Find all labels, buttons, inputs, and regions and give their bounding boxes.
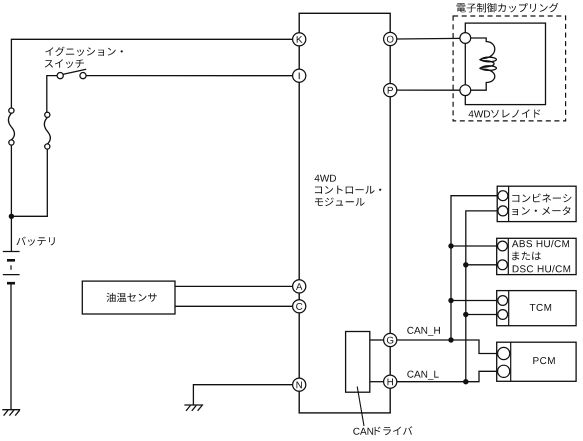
CAN driver box bbox=[346, 332, 370, 393]
label ignition switch bbox=[45, 47, 123, 69]
label electronic control coupling bbox=[457, 3, 559, 13]
wire bus2 to ABS bbox=[466, 264, 498, 266]
pin O bbox=[384, 32, 397, 45]
4WD control module box U1 bbox=[299, 13, 390, 413]
wire battery-fuse to pin K bbox=[11, 39, 293, 108]
combination meter box bbox=[497, 186, 576, 221]
wire switch to fuse F2 bbox=[47, 76, 57, 113]
label battery bbox=[17, 237, 55, 246]
PCM box bbox=[497, 342, 576, 381]
inductor coil L1 bbox=[471, 38, 497, 90]
wire sensor to pin A bbox=[175, 285, 293, 287]
wire pin P to solenoid bbox=[397, 89, 460, 91]
pin N bbox=[293, 378, 306, 391]
solenoid pin bottom bbox=[460, 85, 471, 96]
bus CAN_H vertical bbox=[451, 196, 498, 340]
wire bus1 to TCM bbox=[451, 300, 498, 302]
junction bus2-CANL bbox=[463, 379, 468, 384]
wire F1 to battery junction bbox=[10, 145, 12, 251]
wire battery to ground bbox=[10, 284, 12, 409]
fuse F2 bbox=[44, 112, 50, 149]
wire F2 to junction bbox=[11, 149, 47, 216]
battery B1 bbox=[3, 252, 20, 284]
leader line CAN driver bbox=[357, 387, 364, 427]
solenoid pin top bbox=[460, 33, 471, 44]
junction bus1-CANH bbox=[448, 337, 453, 342]
junction bus1-ABS bbox=[448, 243, 453, 248]
wire switch to pin I bbox=[86, 75, 293, 77]
pin P bbox=[384, 84, 397, 97]
label CAN_H bbox=[407, 327, 440, 336]
wire CAN_H bbox=[397, 340, 499, 354]
label 4WD control module bbox=[315, 175, 382, 206]
wire pin N to ground bbox=[193, 385, 293, 405]
TCM box bbox=[497, 291, 576, 326]
pin I bbox=[293, 69, 306, 82]
wire pin O to solenoid bbox=[397, 37, 460, 40]
junction bus1-TCM bbox=[448, 298, 453, 303]
wire bus2 to TCM bbox=[466, 314, 498, 316]
solenoid box bbox=[465, 23, 545, 105]
wire bus1 to ABS bbox=[451, 245, 498, 247]
pin H bbox=[384, 375, 397, 388]
wire CAN driver to G bbox=[370, 339, 384, 341]
coupling dashed box bbox=[453, 16, 565, 121]
bus CAN_L vertical bbox=[466, 211, 498, 382]
pin A bbox=[293, 280, 306, 293]
label CAN_L bbox=[407, 371, 438, 380]
ABS/DSC box bbox=[497, 238, 576, 274]
oil temp sensor box bbox=[82, 281, 175, 314]
ground G2 bbox=[184, 405, 203, 411]
wire sensor to pin C bbox=[175, 305, 293, 307]
ignition switch SW1 bbox=[57, 69, 86, 79]
junction battery node bbox=[9, 214, 14, 219]
label oil temp sensor bbox=[107, 293, 157, 302]
fuse F1 bbox=[8, 108, 14, 145]
label 4WD solenoid bbox=[469, 109, 541, 118]
ground G1 bbox=[2, 410, 20, 416]
pin K bbox=[293, 33, 306, 46]
wire CAN_L bbox=[397, 371, 499, 381]
junction bus2-TCM bbox=[463, 312, 468, 317]
junction bus2-ABS bbox=[463, 262, 468, 267]
wire CAN driver to H bbox=[370, 381, 384, 383]
label CAN driver bbox=[353, 426, 412, 435]
pin G bbox=[384, 333, 397, 346]
pin C bbox=[293, 300, 306, 313]
